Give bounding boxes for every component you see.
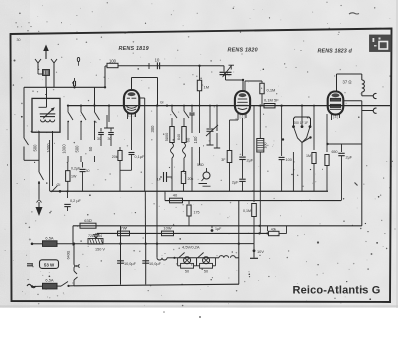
svg-text:2µF: 2µF (346, 156, 353, 160)
V1 bypass caps (104, 127, 114, 129)
svg-text:7W: 7W (121, 225, 127, 230)
svg-text:2µF: 2µF (232, 181, 239, 185)
junction x109 (108, 105, 110, 107)
svg-text:60: 60 (186, 137, 191, 142)
resistor 63 (80, 223, 96, 228)
svg-text:5000: 5000 (165, 133, 169, 141)
svg-text:RENS 1823 d: RENS 1823 d (318, 49, 353, 55)
svg-text:200 1F 1F: 200 1F 1F (294, 121, 309, 125)
svg-text:50Ω: 50Ω (197, 163, 204, 167)
svg-text:63Ω: 63Ω (84, 218, 92, 223)
svg-text:30: 30 (108, 137, 112, 141)
ground bus y285 (74, 284, 239, 286)
corner x340 y200 (340, 200, 342, 202)
svg-text:53 W: 53 W (44, 263, 55, 268)
resistor 100 (107, 63, 118, 67)
bus y225.5 (73, 225, 362, 227)
detector cluster (301, 106, 303, 127)
tube V3 RENS1823d (328, 92, 344, 115)
series cap antenna (74, 78, 76, 82)
V1 plate wire (139, 97, 145, 99)
trimmer cap to V2 grid (220, 65, 224, 67)
svg-text:40k: 40k (271, 227, 277, 231)
svg-text:37 Ω: 37 Ω (343, 80, 352, 85)
bus y233.4 (97, 232, 268, 234)
waveband switch cluster (67, 105, 69, 107)
left RC cluster (67, 162, 69, 171)
coil tap wire 500 (38, 131, 40, 172)
V2 cathode branches (237, 113, 239, 118)
wire x157 down (156, 244, 158, 258)
svg-text:0,1M: 0,1M (267, 88, 276, 93)
10V tap (253, 226, 255, 244)
switch cluster wires (59, 98, 61, 106)
V2 plate load (244, 81, 246, 91)
V1 coupling cap (131, 113, 133, 150)
switch left (39, 172, 44, 180)
svg-text:1M: 1M (306, 154, 311, 158)
svg-text:50: 50 (88, 146, 93, 151)
svg-text:40: 40 (173, 193, 178, 198)
cap 10uF b (142, 260, 149, 262)
wire x327 branch (326, 114, 328, 152)
wire x145.7 down (144, 191, 146, 243)
V1 grid cap wire (131, 78, 133, 91)
V1 cathode resistor (119, 147, 121, 150)
svg-text:30: 30 (97, 137, 101, 141)
svg-text:20k: 20k (112, 155, 118, 159)
step link x259 (258, 225, 260, 227)
resistor 0,1M right (253, 106, 255, 202)
svg-text:100: 100 (286, 158, 292, 162)
svg-text:100: 100 (264, 143, 268, 149)
53W stamp (27, 263, 33, 265)
svg-text:| 3 |: | 3 | (333, 115, 339, 119)
junction bus87 (104, 86, 106, 88)
bus y191 right end (327, 190, 329, 192)
bus y191 to 200 link (164, 191, 166, 200)
svg-text:300: 300 (150, 125, 155, 133)
cap 10uF a (117, 260, 124, 262)
wire V3 right down (361, 111, 363, 224)
field coil resistor (259, 105, 261, 107)
border frame (11, 29, 392, 303)
svg-text:10: 10 (155, 58, 160, 63)
corner x361 y225 (361, 224, 363, 226)
scan smudges (349, 13, 359, 14)
resistor 10W (162, 231, 174, 236)
svg-text:500: 500 (75, 145, 80, 153)
coil tap wire 1000 (52, 131, 54, 186)
svg-text:Gl: Gl (160, 101, 164, 105)
output transformer / speaker terminals (336, 74, 338, 91)
bus y191 (50, 190, 328, 192)
svg-text:50: 50 (185, 270, 189, 274)
svg-text:30: 30 (17, 38, 21, 42)
ground arrow (36, 207, 43, 216)
wire x120 down (120, 226, 122, 285)
dark speckles (358, 116, 359, 117)
svg-text:30: 30 (86, 169, 90, 173)
svg-text:20k: 20k (188, 177, 194, 181)
svg-text:0,2 µF: 0,2 µF (70, 199, 82, 203)
svg-text:100: 100 (193, 136, 198, 144)
wire bus y87 (24, 86, 105, 88)
resistor 175 (188, 201, 190, 204)
svg-text:[ 2 ]: [ 2 ] (240, 115, 246, 119)
dropper hooks (74, 264, 79, 268)
svg-text:500: 500 (33, 144, 38, 152)
cap 1uF bus (211, 226, 213, 229)
wire bus y66 (118, 65, 220, 67)
small mark a (77, 57, 79, 61)
resistor 40k loop (267, 226, 269, 232)
svg-text:0,1M 5F: 0,1M 5F (264, 98, 279, 103)
svg-text:6,5A: 6,5A (45, 236, 54, 241)
svg-text:0,1M: 0,1M (243, 209, 251, 213)
svg-text:RENS 1819: RENS 1819 (119, 46, 149, 52)
wire x314 branch (313, 106, 315, 150)
svg-text:650: 650 (332, 150, 338, 154)
tube V2 RENS1820 (235, 91, 250, 114)
junction x74 bottom (73, 243, 75, 245)
main bus y105.5 (68, 105, 391, 107)
svg-text:4,5V/0,2A: 4,5V/0,2A (182, 245, 200, 250)
scan speckle noise (253, 8, 256, 11)
svg-text:640Ω: 640Ω (67, 250, 71, 259)
tube V1 RENS1819 (124, 90, 139, 114)
svg-text:0,1µF: 0,1µF (135, 155, 145, 159)
resistor 7W (118, 231, 130, 236)
wire up to plate bus (104, 66, 106, 87)
stamp logo (370, 35, 392, 52)
resistor 40 (170, 198, 183, 203)
lamp right vertical (238, 201, 240, 285)
wire x281 down (281, 106, 283, 156)
svg-text:6,5A: 6,5A (45, 278, 54, 283)
svg-text:1M: 1M (204, 85, 210, 90)
svg-text:640: 640 (177, 134, 181, 140)
svg-text:10,0µF: 10,0µF (149, 262, 162, 266)
cap 0,2uF (66, 190, 68, 192)
cap 10 in bus (156, 62, 158, 69)
svg-text:50: 50 (204, 270, 208, 274)
svg-text:RENS 1820: RENS 1820 (228, 48, 258, 54)
tuning coil box (32, 98, 60, 132)
svg-text:Reico-Atlantis G: Reico-Atlantis G (293, 285, 381, 297)
svg-text:1W: 1W (71, 175, 77, 179)
left wire down (23, 87, 25, 138)
wire x94.5 from bus87 (94, 87, 96, 105)
svg-text:150 V: 150 V (95, 248, 105, 252)
junction top bus (198, 65, 200, 67)
svg-text:175: 175 (194, 211, 200, 215)
antenna terminal left (35, 59, 38, 63)
cap 650 2uF (328, 143, 362, 145)
svg-text:100: 100 (109, 59, 117, 64)
svg-text:+: + (29, 237, 32, 242)
svg-text:10W: 10W (163, 225, 171, 230)
antenna (45, 51, 47, 59)
svg-text:2µF: 2µF (247, 159, 254, 163)
bus y200.5 (165, 200, 341, 202)
AC terminal fuse switch (27, 284, 36, 287)
svg-text:1µF: 1µF (215, 227, 222, 231)
coil box top wire (46, 87, 48, 98)
svg-text:1000: 1000 (62, 144, 67, 154)
antenna coupling cap (43, 70, 50, 76)
left end bus down (72, 226, 74, 246)
wire bus y66 left (105, 65, 107, 67)
antenna terminal right (51, 59, 54, 63)
svg-text:10V: 10V (257, 249, 264, 254)
svg-text:10,0µF: 10,0µF (124, 262, 137, 266)
middle trimmer branches (191, 105, 193, 107)
